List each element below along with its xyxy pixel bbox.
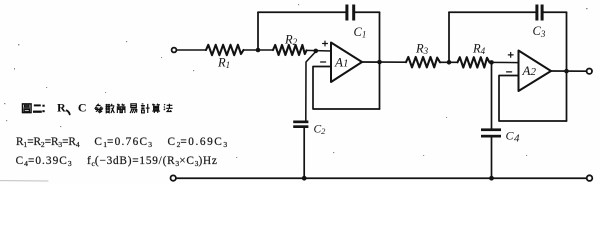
glyph 參 [95, 104, 103, 113]
ground rail [176, 177, 586, 179]
svg-text:R3: R3 [415, 41, 429, 56]
scan speckles [4, 4, 588, 158]
svg-text:R1: R1 [217, 55, 230, 70]
wire A2 feedback loop [499, 76, 567, 122]
A1 minus sign [321, 61, 326, 63]
wire R1 to R2 [244, 49, 274, 51]
glyph 數 [105, 104, 114, 113]
wire node A up to top rail [257, 12, 259, 50]
wire top rail stage2 right [544, 11, 567, 13]
wire node B to A1 plus input [307, 49, 332, 52]
capacitor C4 [481, 128, 520, 144]
svg-text:R: R [57, 101, 66, 115]
resistor R3 [406, 41, 440, 67]
wire A2 output to terminal [551, 70, 586, 72]
colon [42, 105, 44, 113]
glyph 算 [152, 104, 160, 113]
wire C4 to ground rail [491, 138, 493, 179]
wire top rail stage1 left [258, 11, 346, 13]
faint page edge line bottom left [0, 180, 48, 182]
op-amp A2 [519, 51, 552, 92]
wire C1 down to A1 output node [379, 12, 381, 109]
formula line 2 run 1 [16, 156, 72, 167]
wire node C up to top rail [448, 12, 450, 62]
glyph 法 [164, 104, 173, 112]
wire node D to A2 plus input [490, 61, 519, 63]
capacitor C1 [345, 5, 366, 40]
caption title block [23, 101, 173, 115]
wire node B down to C2 [306, 52, 316, 121]
A2 minus sign [507, 71, 512, 73]
wire A1 feedback loop [313, 67, 380, 110]
capacitor C3 [533, 5, 546, 39]
svg-text:R4: R4 [472, 41, 486, 56]
junction dot C2 ground [302, 176, 307, 181]
wire node D down to C4 [491, 62, 493, 128]
junction dot C4 ground [489, 176, 494, 181]
wire input to R1 [177, 49, 206, 51]
glyph 簡 [117, 104, 125, 113]
glyph 二 [33, 105, 42, 111]
ideographic comma [67, 110, 70, 114]
capacitor C2 [293, 121, 326, 137]
node C junction [447, 60, 452, 65]
wire C3 down through A2 output to feedback [566, 12, 568, 121]
node A2 output junction [564, 69, 569, 74]
ground terminal left [171, 175, 176, 180]
svg-text:C2: C2 [314, 124, 327, 137]
wire R3 to R4 [440, 61, 458, 63]
wire top rail stage2 left [449, 11, 536, 13]
A2 plus sign [508, 53, 513, 58]
glyph 計 [141, 104, 150, 113]
input terminal IN [172, 48, 177, 53]
resistor R1 [206, 45, 244, 70]
formula line 2 run 2 [87, 156, 218, 167]
glyph 圖 [23, 104, 32, 113]
svg-text:C3: C3 [533, 24, 546, 39]
formula line 1 run 1 [16, 137, 80, 148]
glyph 易 [130, 104, 137, 113]
formula line 1 run 2 [94, 137, 152, 148]
resistor R2 [273, 33, 307, 55]
svg-text:A1: A1 [334, 55, 348, 70]
output terminal OUT [587, 69, 592, 74]
wire A1 output to R3 [362, 61, 406, 63]
node A1 output junction [377, 60, 382, 65]
resistor R4 [458, 41, 490, 67]
svg-text:C: C [78, 101, 87, 115]
node D junction (A2 + input) [489, 60, 494, 65]
node A junction [256, 48, 261, 53]
wire C2 to ground rail [303, 128, 305, 178]
formula line 1 run 3 [168, 137, 228, 148]
wire top rail stage1 right [355, 11, 379, 13]
A1 plus sign [323, 41, 328, 46]
svg-text:A2: A2 [522, 63, 537, 78]
node B junction (A1 + input) [314, 49, 319, 54]
op-amp A1 [331, 43, 362, 83]
svg-text:R2: R2 [284, 33, 298, 48]
svg-text:C1: C1 [354, 25, 367, 40]
svg-text:C4: C4 [506, 129, 521, 145]
ground terminal right [587, 175, 593, 181]
